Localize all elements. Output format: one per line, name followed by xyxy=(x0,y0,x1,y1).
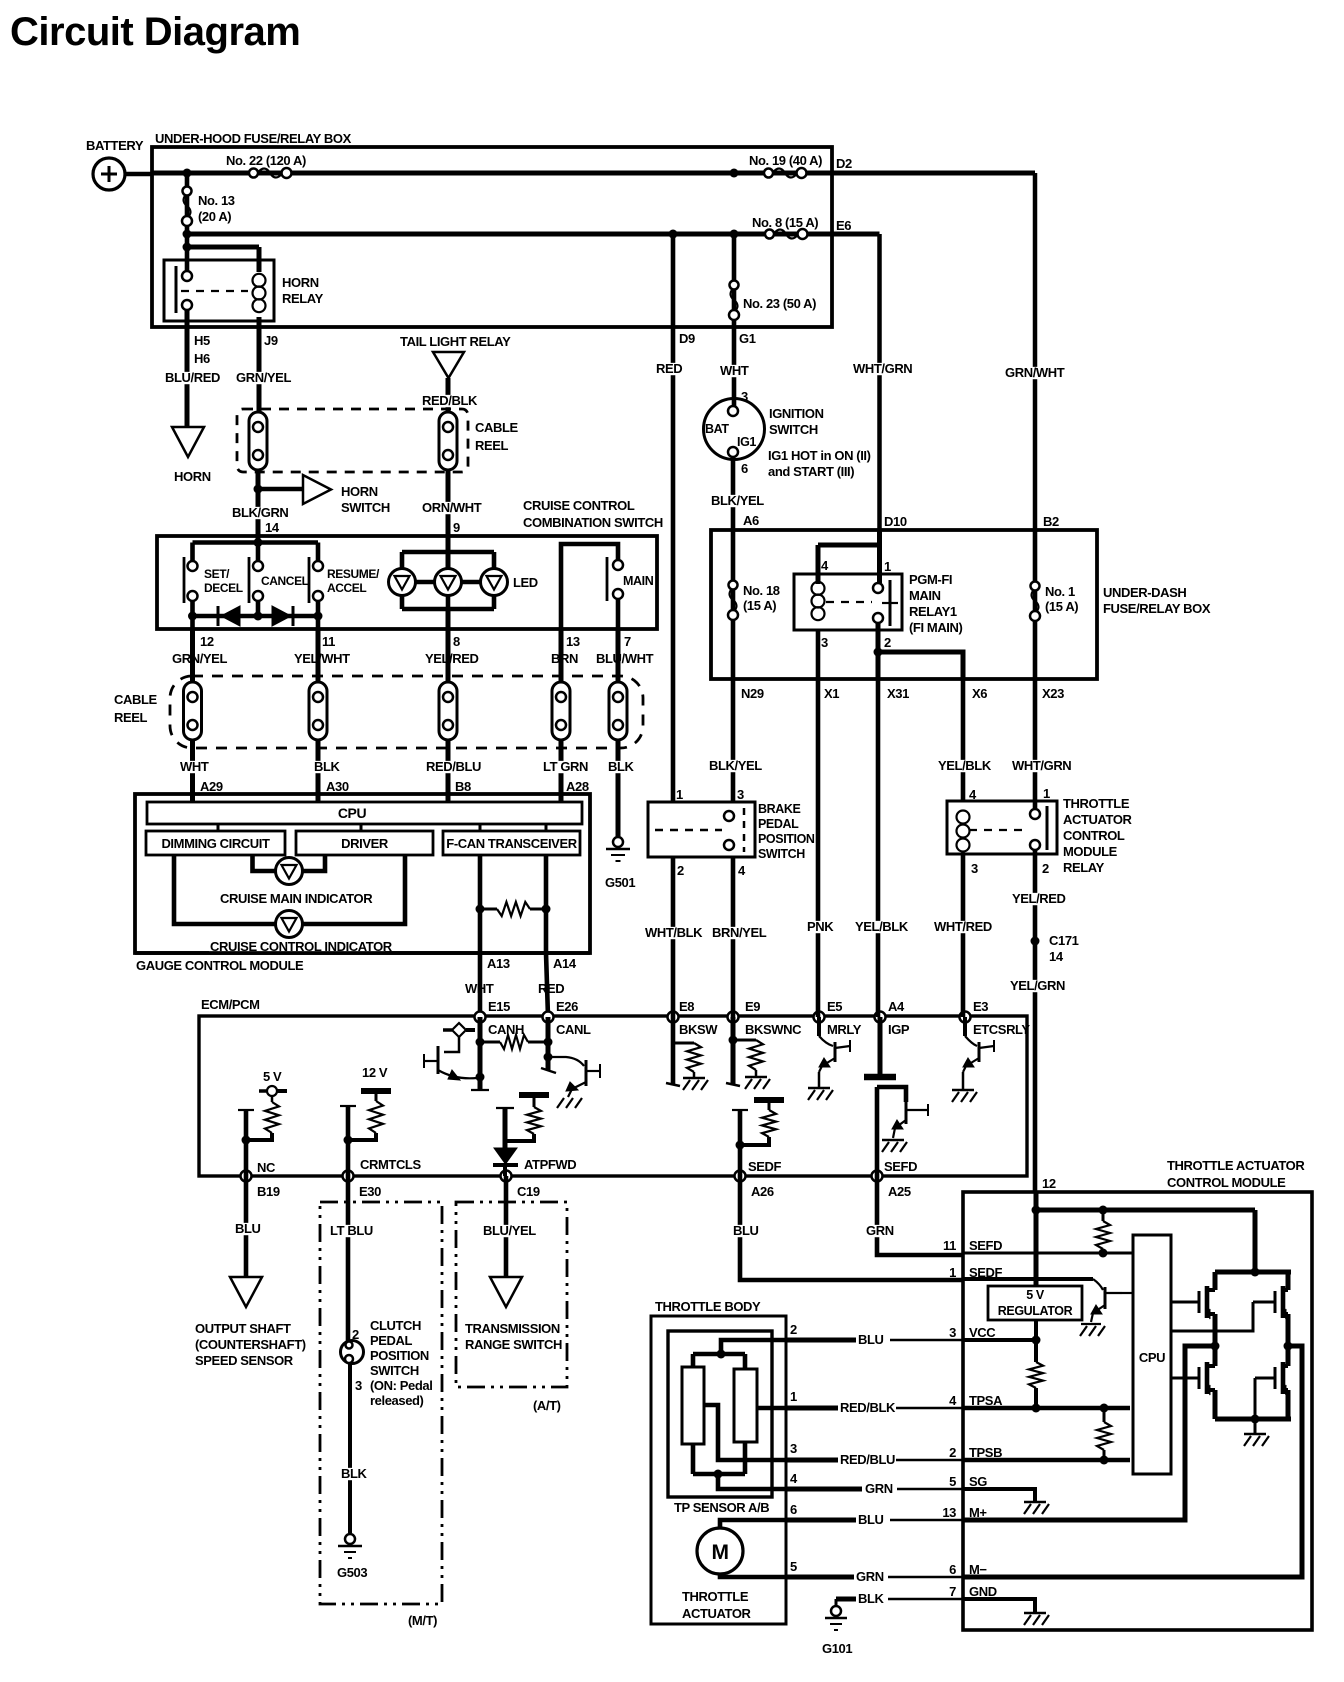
svg-text:HORN: HORN xyxy=(174,469,211,484)
svg-text:WHT/GRN: WHT/GRN xyxy=(1012,758,1071,773)
svg-text:ACCEL: ACCEL xyxy=(327,581,366,595)
svg-text:CLUTCH: CLUTCH xyxy=(370,1318,421,1333)
svg-text:1: 1 xyxy=(790,1389,797,1404)
svg-text:E15: E15 xyxy=(488,999,510,1014)
svg-text:CONTROL: CONTROL xyxy=(1063,828,1125,843)
svg-text:A25: A25 xyxy=(888,1184,911,1199)
svg-text:No. 19 (40 A): No. 19 (40 A) xyxy=(749,153,822,168)
svg-text:6: 6 xyxy=(949,1562,956,1577)
svg-text:6: 6 xyxy=(790,1502,797,1517)
svg-text:M: M xyxy=(711,1541,728,1564)
svg-text:J9: J9 xyxy=(264,333,278,348)
svg-text:BLK: BLK xyxy=(858,1591,885,1606)
svg-text:(COUNTERSHAFT): (COUNTERSHAFT) xyxy=(195,1337,306,1352)
svg-text:IGNITION: IGNITION xyxy=(769,406,824,421)
svg-text:BLU: BLU xyxy=(235,1221,261,1236)
svg-text:GND: GND xyxy=(969,1584,997,1599)
svg-text:BAT: BAT xyxy=(705,422,729,436)
svg-text:CRUISE CONTROL: CRUISE CONTROL xyxy=(523,498,635,513)
svg-text:BLK: BLK xyxy=(608,759,635,774)
svg-text:VCC: VCC xyxy=(969,1325,996,1340)
svg-text:X31: X31 xyxy=(887,686,909,701)
svg-text:THROTTLE: THROTTLE xyxy=(682,1589,749,1604)
svg-text:8: 8 xyxy=(453,634,460,649)
svg-text:14: 14 xyxy=(1049,949,1064,964)
svg-text:No. 18: No. 18 xyxy=(743,583,780,598)
svg-text:YEL/BLK: YEL/BLK xyxy=(938,758,992,773)
svg-text:THROTTLE: THROTTLE xyxy=(1063,796,1130,811)
svg-text:E5: E5 xyxy=(827,999,842,1014)
svg-text:HORN: HORN xyxy=(282,275,319,290)
svg-text:ATPFWD: ATPFWD xyxy=(524,1157,576,1172)
svg-text:3: 3 xyxy=(355,1378,362,1393)
svg-text:12: 12 xyxy=(1042,1176,1056,1191)
svg-text:GRN/YEL: GRN/YEL xyxy=(236,370,291,385)
svg-text:G503: G503 xyxy=(337,1565,367,1580)
svg-text:POSITION: POSITION xyxy=(370,1348,429,1363)
svg-text:BLK/YEL: BLK/YEL xyxy=(711,493,764,508)
svg-text:RED/BLU: RED/BLU xyxy=(840,1452,895,1467)
svg-text:LT BLU: LT BLU xyxy=(330,1223,373,1238)
svg-text:3: 3 xyxy=(971,861,978,876)
svg-text:RED: RED xyxy=(656,361,682,376)
svg-text:YEL/RED: YEL/RED xyxy=(425,651,479,666)
svg-text:THROTTLE ACTUATOR: THROTTLE ACTUATOR xyxy=(1167,1158,1305,1173)
svg-text:BLU: BLU xyxy=(858,1332,884,1347)
svg-text:3: 3 xyxy=(949,1325,956,1340)
svg-text:BLU: BLU xyxy=(858,1512,884,1527)
svg-text:RELAY: RELAY xyxy=(1063,860,1105,875)
svg-text:BLK: BLK xyxy=(341,1466,368,1481)
svg-text:IG1: IG1 xyxy=(737,435,756,449)
svg-text:DIMMING CIRCUIT: DIMMING CIRCUIT xyxy=(161,836,270,851)
svg-text:CANCEL: CANCEL xyxy=(261,574,309,588)
svg-text:FUSE/RELAY BOX: FUSE/RELAY BOX xyxy=(1103,601,1211,616)
svg-text:2: 2 xyxy=(677,863,684,878)
svg-text:SWITCH: SWITCH xyxy=(758,847,805,861)
svg-text:CRMTCLS: CRMTCLS xyxy=(360,1157,421,1172)
svg-text:5 V: 5 V xyxy=(263,1069,282,1084)
svg-text:13: 13 xyxy=(942,1505,956,1520)
svg-text:5: 5 xyxy=(790,1559,797,1574)
svg-text:BKSW: BKSW xyxy=(679,1022,718,1037)
svg-text:RELAY: RELAY xyxy=(282,291,324,306)
svg-text:ORN/WHT: ORN/WHT xyxy=(422,500,482,515)
svg-text:UNDER-DASH: UNDER-DASH xyxy=(1103,585,1186,600)
svg-text:E8: E8 xyxy=(679,999,694,1014)
svg-text:PEDAL: PEDAL xyxy=(758,817,799,831)
svg-text:IGP: IGP xyxy=(888,1022,910,1037)
svg-text:G101: G101 xyxy=(822,1641,852,1656)
svg-text:7: 7 xyxy=(949,1584,956,1599)
svg-text:11: 11 xyxy=(322,634,335,649)
svg-text:SPEED SENSOR: SPEED SENSOR xyxy=(195,1353,294,1368)
svg-text:REGULATOR: REGULATOR xyxy=(998,1304,1073,1318)
svg-text:PNK: PNK xyxy=(807,919,834,934)
svg-text:(20 A): (20 A) xyxy=(198,209,231,224)
svg-text:GRN/YEL: GRN/YEL xyxy=(172,651,227,666)
svg-text:MRLY: MRLY xyxy=(827,1022,862,1037)
svg-text:WHT: WHT xyxy=(180,759,209,774)
svg-text:(A/T): (A/T) xyxy=(533,1398,561,1413)
svg-text:No. 1: No. 1 xyxy=(1045,584,1075,599)
svg-text:12 V: 12 V xyxy=(362,1065,388,1080)
svg-text:DRIVER: DRIVER xyxy=(341,836,389,851)
svg-text:X6: X6 xyxy=(972,686,987,701)
svg-text:BRAKE: BRAKE xyxy=(758,802,801,816)
svg-text:THROTTLE BODY: THROTTLE BODY xyxy=(655,1299,761,1314)
svg-text:RED: RED xyxy=(538,981,564,996)
svg-text:WHT/RED: WHT/RED xyxy=(934,919,992,934)
svg-text:H6: H6 xyxy=(194,351,210,366)
svg-text:1: 1 xyxy=(949,1265,956,1280)
svg-text:RED/BLK: RED/BLK xyxy=(840,1400,896,1415)
svg-text:CPU: CPU xyxy=(338,805,367,821)
svg-text:WHT/BLK: WHT/BLK xyxy=(645,925,703,940)
svg-text:(FI MAIN): (FI MAIN) xyxy=(909,620,963,635)
svg-text:BLK: BLK xyxy=(314,759,341,774)
svg-text:B2: B2 xyxy=(1043,514,1059,529)
svg-text:MAIN: MAIN xyxy=(623,574,654,588)
svg-text:9: 9 xyxy=(453,520,460,535)
svg-text:A29: A29 xyxy=(200,779,223,794)
svg-text:4: 4 xyxy=(738,863,746,878)
svg-text:11: 11 xyxy=(943,1238,956,1253)
svg-text:A13: A13 xyxy=(487,956,510,971)
svg-text:E26: E26 xyxy=(556,999,578,1014)
svg-text:1: 1 xyxy=(884,559,891,574)
svg-text:YEL/BLK: YEL/BLK xyxy=(855,919,909,934)
svg-text:released): released) xyxy=(370,1393,424,1408)
svg-text:RED/BLK: RED/BLK xyxy=(422,393,478,408)
svg-text:A28: A28 xyxy=(566,779,589,794)
svg-text:C171: C171 xyxy=(1049,933,1079,948)
svg-text:2: 2 xyxy=(884,635,891,650)
svg-text:HORN: HORN xyxy=(341,484,378,499)
svg-text:3: 3 xyxy=(821,635,828,650)
svg-text:E30: E30 xyxy=(359,1184,381,1199)
svg-text:CRUISE MAIN INDICATOR: CRUISE MAIN INDICATOR xyxy=(220,891,373,906)
svg-text:B8: B8 xyxy=(455,779,471,794)
svg-text:A14: A14 xyxy=(553,956,577,971)
svg-text:TRANSMISSION: TRANSMISSION xyxy=(465,1321,560,1336)
svg-text:SEFD: SEFD xyxy=(969,1238,1002,1253)
svg-text:F-CAN TRANSCEIVER: F-CAN TRANSCEIVER xyxy=(446,836,577,851)
svg-text:A6: A6 xyxy=(743,513,759,528)
svg-text:A4: A4 xyxy=(888,999,905,1014)
svg-text:ECM/PCM: ECM/PCM xyxy=(201,997,260,1012)
svg-text:BRN/YEL: BRN/YEL xyxy=(712,925,767,940)
svg-text:5 V: 5 V xyxy=(1026,1288,1045,1302)
svg-text:BKSWNC: BKSWNC xyxy=(745,1022,802,1037)
svg-text:CABLE: CABLE xyxy=(114,692,158,707)
svg-text:SWITCH: SWITCH xyxy=(370,1363,419,1378)
svg-text:3: 3 xyxy=(790,1441,797,1456)
svg-text:D10: D10 xyxy=(884,514,907,529)
svg-text:ETCSRLY: ETCSRLY xyxy=(973,1022,1030,1037)
svg-text:SG: SG xyxy=(969,1474,987,1489)
svg-text:CONTROL MODULE: CONTROL MODULE xyxy=(1167,1175,1286,1190)
svg-text:CANH: CANH xyxy=(488,1022,524,1037)
svg-text:GRN: GRN xyxy=(866,1223,894,1238)
svg-text:REEL: REEL xyxy=(114,710,148,725)
svg-text:RED/BLU: RED/BLU xyxy=(426,759,481,774)
svg-text:A30: A30 xyxy=(326,779,349,794)
svg-text:H5: H5 xyxy=(194,333,210,348)
svg-text:BLU/RED: BLU/RED xyxy=(165,370,220,385)
svg-text:No. 8 (15 A): No. 8 (15 A) xyxy=(752,215,818,230)
svg-text:REEL: REEL xyxy=(475,438,509,453)
svg-text:(15 A): (15 A) xyxy=(743,598,776,613)
svg-text:BLK/GRN: BLK/GRN xyxy=(232,505,288,520)
svg-text:SEDF: SEDF xyxy=(748,1159,782,1174)
svg-text:X1: X1 xyxy=(824,686,839,701)
svg-text:1: 1 xyxy=(1043,786,1050,801)
svg-text:OUTPUT SHAFT: OUTPUT SHAFT xyxy=(195,1321,291,1336)
svg-text:LED: LED xyxy=(513,575,538,590)
svg-text:No. 23 (50 A): No. 23 (50 A) xyxy=(743,296,816,311)
svg-text:CABLE: CABLE xyxy=(475,420,519,435)
svg-text:WHT/GRN: WHT/GRN xyxy=(853,361,912,376)
svg-text:BRN: BRN xyxy=(551,651,578,666)
svg-text:G1: G1 xyxy=(739,331,756,346)
svg-text:BLU: BLU xyxy=(733,1223,759,1238)
svg-text:COMBINATION SWITCH: COMBINATION SWITCH xyxy=(523,515,663,530)
svg-text:YEL/WHT: YEL/WHT xyxy=(294,651,350,666)
svg-text:4: 4 xyxy=(821,558,829,573)
svg-text:CPU: CPU xyxy=(1139,1350,1165,1365)
svg-text:(15 A): (15 A) xyxy=(1045,599,1078,614)
svg-text:2: 2 xyxy=(949,1445,956,1460)
svg-text:5: 5 xyxy=(949,1474,956,1489)
svg-text:2: 2 xyxy=(1042,861,1049,876)
svg-text:G501: G501 xyxy=(605,875,635,890)
svg-text:E3: E3 xyxy=(973,999,988,1014)
svg-text:GRN: GRN xyxy=(865,1481,893,1496)
svg-text:A26: A26 xyxy=(751,1184,774,1199)
svg-text:4: 4 xyxy=(790,1471,798,1486)
svg-text:14: 14 xyxy=(265,520,280,535)
svg-text:BLU/WHT: BLU/WHT xyxy=(596,651,654,666)
svg-text:PGM-FI: PGM-FI xyxy=(909,572,952,587)
svg-text:MODULE: MODULE xyxy=(1063,844,1118,859)
svg-text:C19: C19 xyxy=(517,1184,540,1199)
svg-text:No. 13: No. 13 xyxy=(198,193,235,208)
svg-text:POSITION: POSITION xyxy=(758,832,815,846)
svg-text:YEL/GRN: YEL/GRN xyxy=(1010,978,1065,993)
svg-text:GAUGE CONTROL MODULE: GAUGE CONTROL MODULE xyxy=(136,958,304,973)
svg-text:MAIN: MAIN xyxy=(909,588,941,603)
svg-text:2: 2 xyxy=(790,1322,797,1337)
svg-text:12: 12 xyxy=(200,634,214,649)
svg-text:7: 7 xyxy=(624,634,631,649)
svg-text:6: 6 xyxy=(741,461,748,476)
svg-text:TAIL LIGHT RELAY: TAIL LIGHT RELAY xyxy=(400,334,511,349)
svg-text:ACTUATOR: ACTUATOR xyxy=(1063,812,1133,827)
svg-text:SWITCH: SWITCH xyxy=(769,422,818,437)
svg-text:E9: E9 xyxy=(745,999,760,1014)
svg-text:TP SENSOR A/B: TP SENSOR A/B xyxy=(674,1500,769,1515)
svg-text:SET/: SET/ xyxy=(204,567,230,581)
svg-text:D2: D2 xyxy=(836,156,852,171)
svg-text:D9: D9 xyxy=(679,331,695,346)
svg-text:RANGE SWITCH: RANGE SWITCH xyxy=(465,1337,562,1352)
svg-text:NC: NC xyxy=(257,1160,276,1175)
svg-text:PEDAL: PEDAL xyxy=(370,1333,413,1348)
svg-text:4: 4 xyxy=(949,1393,957,1408)
svg-text:N29: N29 xyxy=(741,686,764,701)
svg-text:13: 13 xyxy=(566,634,580,649)
svg-text:(M/T): (M/T) xyxy=(408,1613,437,1628)
svg-text:GRN: GRN xyxy=(856,1569,884,1584)
svg-text:BATTERY: BATTERY xyxy=(86,138,144,153)
svg-text:RESUME/: RESUME/ xyxy=(327,567,380,581)
svg-text:and START (III): and START (III) xyxy=(768,464,854,479)
svg-text:Circuit Diagram: Circuit Diagram xyxy=(10,10,300,54)
svg-text:3: 3 xyxy=(737,787,744,802)
svg-text:(ON: Pedal: (ON: Pedal xyxy=(370,1378,432,1393)
svg-text:UNDER-HOOD FUSE/RELAY BOX: UNDER-HOOD FUSE/RELAY BOX xyxy=(155,131,352,146)
svg-text:X23: X23 xyxy=(1042,686,1064,701)
svg-text:1: 1 xyxy=(676,787,683,802)
svg-text:RELAY1: RELAY1 xyxy=(909,604,957,619)
svg-text:E6: E6 xyxy=(836,218,851,233)
svg-text:SEFD: SEFD xyxy=(884,1159,917,1174)
svg-text:B19: B19 xyxy=(257,1184,280,1199)
svg-text:IG1 HOT in ON (II): IG1 HOT in ON (II) xyxy=(768,448,871,463)
svg-text:BLU/YEL: BLU/YEL xyxy=(483,1223,536,1238)
svg-text:SWITCH: SWITCH xyxy=(341,500,390,515)
svg-text:ACTUATOR: ACTUATOR xyxy=(682,1606,752,1621)
svg-text:BLK/YEL: BLK/YEL xyxy=(709,758,762,773)
svg-text:LT GRN: LT GRN xyxy=(543,759,588,774)
svg-text:CANL: CANL xyxy=(556,1022,591,1037)
svg-text:WHT: WHT xyxy=(720,363,749,378)
svg-text:DECEL: DECEL xyxy=(204,581,243,595)
svg-text:No. 22 (120 A): No. 22 (120 A) xyxy=(226,153,306,168)
svg-text:YEL/RED: YEL/RED xyxy=(1012,891,1066,906)
svg-text:GRN/WHT: GRN/WHT xyxy=(1005,365,1065,380)
